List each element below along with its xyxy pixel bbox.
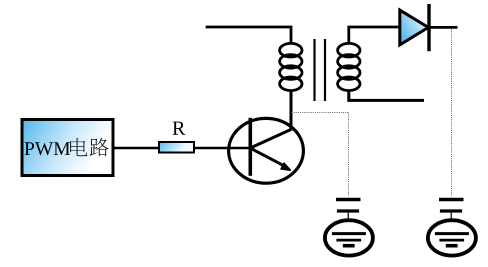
transformer core [315, 39, 326, 101]
wire diode output [430, 26, 458, 29]
wire secondary top to diode [349, 27, 400, 44]
transformer secondary winding [338, 43, 360, 90]
transistor Q1 [229, 118, 304, 183]
wire resistor to transistor base [194, 147, 251, 149]
capacitor C1 [336, 200, 361, 221]
dotted wire diode output to C2 [451, 29, 453, 197]
diode D1 [400, 4, 429, 51]
wire PWM block to resistor [113, 147, 159, 149]
wire collector up to primary winding [290, 90, 293, 129]
wire secondary bottom [349, 90, 424, 100]
capacitor C2 [439, 200, 464, 221]
wire top-left to primary winding [206, 27, 291, 44]
transformer primary winding [280, 43, 302, 90]
ground (earth) left [325, 220, 373, 255]
label R [173, 122, 186, 135]
dotted wire collector node to C1 [291, 113, 348, 197]
ground (earth) right [428, 220, 476, 255]
label PWM电路 [25, 138, 109, 156]
resistor R [159, 142, 194, 153]
PWM circuit block [22, 120, 113, 176]
